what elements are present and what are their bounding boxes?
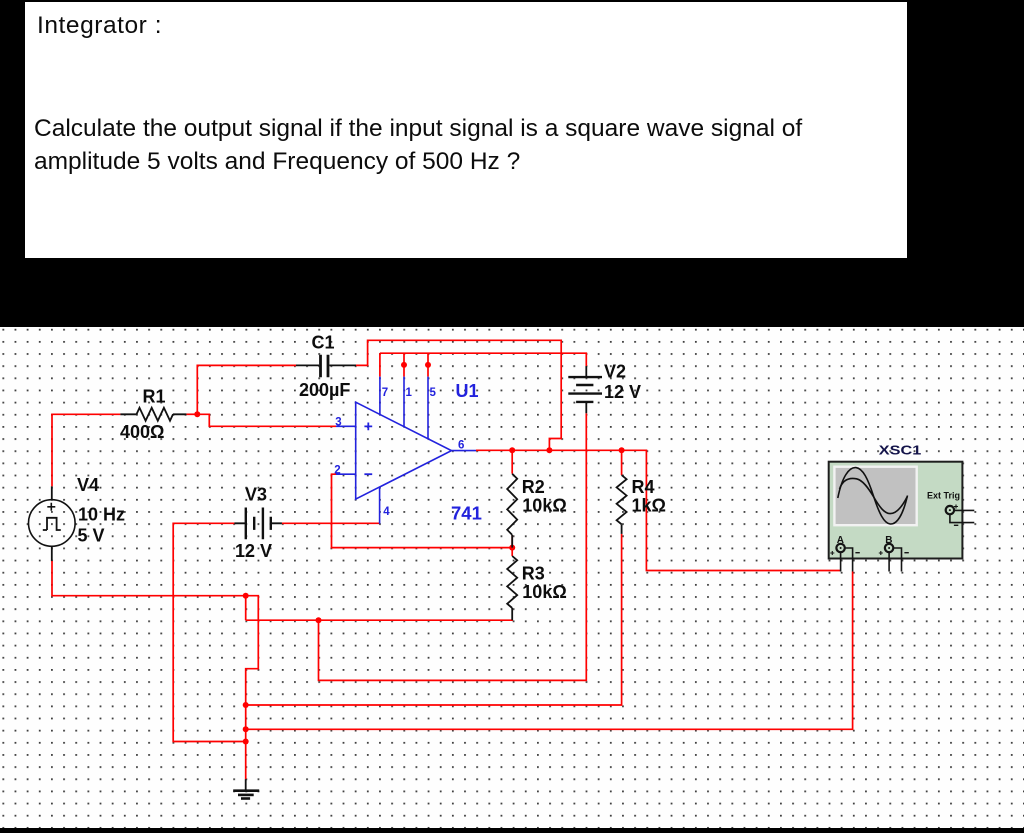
source V4 square-wave: [29, 486, 76, 561]
schematic canvas: [0, 327, 1024, 828]
capacitor C1: [296, 355, 356, 378]
wire output node to scope input A: [476, 450, 841, 570]
wire R1 right to node A junction: [186, 413, 197, 415]
svg-text:U1: U1: [456, 381, 479, 401]
wire node B to R3 bottom rail: [245, 596, 247, 621]
svg-text:V2: V2: [604, 362, 626, 382]
junction output/R4: [619, 447, 625, 453]
op-amp pin 7 stub: [379, 377, 381, 415]
wire pin 5 red stub: [427, 353, 429, 376]
wire pin 7 red stub: [379, 353, 381, 376]
svg-text:7: 7: [382, 387, 388, 399]
wire ground rail to scope A negative: [246, 572, 853, 730]
wire node A to op-amp pin 3: [197, 414, 336, 426]
svg-text:R4: R4: [632, 477, 655, 497]
junction R3 rail / V2 minus: [316, 617, 322, 623]
oscilloscope XSC1: [829, 462, 975, 572]
wire node B down-jog to ground stem: [246, 596, 259, 780]
wire output node down to R2 top: [511, 450, 513, 473]
resistor R2: [507, 474, 517, 548]
svg-text:A: A: [837, 535, 844, 546]
wire output node down to R4 top: [621, 450, 623, 475]
wire ground rail to R4 bottom: [246, 534, 622, 705]
svg-text:1: 1: [406, 387, 413, 399]
scope channel B terminal: [879, 544, 909, 572]
svg-text:12 V: 12 V: [604, 382, 641, 402]
svg-text:5: 5: [430, 387, 437, 399]
junction ground/R4 rail: [243, 702, 249, 708]
svg-text:R1: R1: [143, 387, 166, 407]
svg-text:10kΩ: 10kΩ: [522, 582, 566, 602]
ground: [233, 779, 259, 798]
junction output/R2: [509, 447, 515, 453]
resistor R3: [507, 556, 517, 620]
wire V2 bottom down and left to ground rail: [319, 413, 587, 680]
scope channel A terminal: [830, 544, 860, 572]
svg-text:R2: R2: [522, 477, 545, 497]
svg-text:400Ω: 400Ω: [120, 422, 164, 442]
op-amp pin 4 stub: [379, 487, 381, 524]
op-amp minus sign: [364, 473, 372, 475]
svg-text:12 V: 12 V: [235, 541, 272, 561]
svg-text:1kΩ: 1kΩ: [632, 496, 666, 516]
wire V4 top to R1 left: [52, 414, 120, 486]
svg-text:3: 3: [335, 417, 341, 429]
junction ground/V3 rail: [243, 739, 249, 745]
wire op-amp pin 2 to R2/R3 node: [332, 474, 513, 547]
svg-text:C1: C1: [312, 333, 335, 353]
battery V3: [234, 508, 282, 540]
svg-text:10 Hz: 10 Hz: [78, 505, 125, 525]
resistor R1: [120, 408, 186, 421]
junction pin 5 stub: [425, 362, 431, 368]
svg-text:XSC1: XSC1: [879, 442, 922, 457]
wire V3 left to ground rail: [173, 523, 246, 741]
junction output/feedback: [546, 447, 552, 453]
scope Ext Trig terminal: [946, 505, 975, 526]
junction ground/scope rail: [243, 726, 249, 732]
op-amp U1 triangle: [336, 377, 476, 524]
scope trace curves: [838, 468, 908, 524]
op-amp pin 1 stub: [403, 377, 405, 427]
op-amp pin 3 stub: [336, 425, 356, 427]
svg-text:6: 6: [458, 439, 464, 451]
svg-text:200µF: 200µF: [299, 380, 350, 400]
svg-text:10kΩ: 10kΩ: [522, 496, 566, 516]
wire V4 bottom to node B: [52, 561, 246, 596]
svg-text:4: 4: [383, 506, 390, 518]
op-amp pin 5 stub: [427, 377, 429, 439]
svg-text:2: 2: [334, 464, 340, 476]
svg-text:V4: V4: [77, 475, 99, 495]
op-amp plus sign: [364, 423, 372, 431]
junction R2/R3/pin2: [509, 545, 515, 551]
wire node A up-left to C1 left lead: [197, 365, 296, 414]
junction node A (R1/C1/pin3): [194, 411, 200, 417]
svg-text:5 V: 5 V: [78, 525, 105, 545]
battery V2: [568, 366, 602, 413]
wire R3 bottom rail: [246, 619, 513, 621]
wire V3 right to op-amp pin 4: [282, 522, 380, 524]
svg-text:741: 741: [451, 503, 482, 524]
svg-text:R3: R3: [522, 564, 545, 584]
svg-text:Ext Trig: Ext Trig: [927, 491, 960, 501]
wire V+ rail pin7 pins1,5 to V2 top: [380, 353, 586, 366]
junction node B: [243, 593, 249, 599]
wire C1 right lead feedback to output node: [356, 340, 561, 450]
junction pin 1 stub: [401, 362, 407, 368]
wire R2 bottom to R3 top: [511, 535, 513, 556]
wire pin 1 red stub: [403, 353, 405, 376]
svg-text:B: B: [885, 535, 892, 546]
op-amp pin 2 stub: [336, 473, 356, 475]
svg-text:V3: V3: [245, 485, 267, 505]
op-amp pin 6 stub: [452, 450, 477, 452]
question text box: [23, 0, 909, 260]
resistor R4: [617, 475, 627, 534]
